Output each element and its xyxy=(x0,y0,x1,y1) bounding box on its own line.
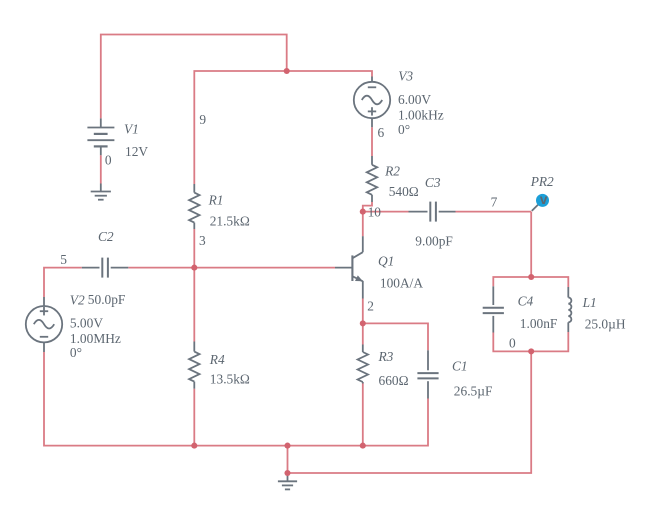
svg-text:6.00V: 6.00V xyxy=(398,92,431,107)
junction node 3 xyxy=(191,265,197,271)
probe PR2 xyxy=(536,192,549,207)
wire bottom rail mid xyxy=(194,445,362,447)
wire C2 left from V2 corner xyxy=(44,268,82,297)
junction tank top xyxy=(528,274,534,280)
svg-text:2: 2 xyxy=(367,299,374,314)
wire R2 bottom jog to node 10 xyxy=(363,202,372,236)
svg-text:C2: C2 xyxy=(98,229,114,244)
svg-text:C3: C3 xyxy=(425,175,441,190)
svg-text:R1: R1 xyxy=(208,192,224,207)
wire tank bottom side xyxy=(493,332,568,351)
wire tank top side xyxy=(493,277,568,287)
junction top rail xyxy=(284,68,290,74)
svg-text:6: 6 xyxy=(378,125,385,140)
svg-text:Q1: Q1 xyxy=(378,253,394,268)
resistor R3 xyxy=(358,345,368,384)
battery V1 xyxy=(87,118,114,155)
svg-text:0°: 0° xyxy=(70,345,82,360)
svg-text:v: v xyxy=(540,192,548,207)
wire V1 bottom to ground xyxy=(100,155,102,183)
ac source V3 xyxy=(354,77,390,128)
junction node 2 xyxy=(360,320,366,326)
svg-text:9: 9 xyxy=(199,112,206,127)
svg-text:13.5kΩ: 13.5kΩ xyxy=(210,372,250,387)
svg-text:660Ω: 660Ω xyxy=(379,373,409,388)
wire node 3 to Q1 base xyxy=(194,267,335,269)
inductor L1 xyxy=(568,287,571,332)
transistor Q1 xyxy=(335,236,363,298)
capacitor C3 xyxy=(409,202,456,222)
svg-text:0: 0 xyxy=(509,336,516,351)
wire PR2 corner down to tank top xyxy=(530,212,532,277)
svg-text:V3: V3 xyxy=(398,69,413,84)
svg-text:1.00kHz: 1.00kHz xyxy=(398,107,444,122)
wire R3 bottom to rail xyxy=(362,384,364,446)
junction tank bottom xyxy=(528,348,534,354)
probe PR2 stub xyxy=(532,205,538,211)
svg-text:25.0µH: 25.0µH xyxy=(585,316,626,331)
svg-text:R2: R2 xyxy=(384,163,400,178)
junction ground rail xyxy=(284,443,290,449)
junction node 10 xyxy=(360,209,366,215)
resistor R1 xyxy=(189,184,199,229)
svg-text:L1: L1 xyxy=(582,295,597,310)
junction R3 bottom xyxy=(360,443,366,449)
svg-text:C4: C4 xyxy=(518,294,534,309)
wire top rail from V1 to drop xyxy=(101,35,287,119)
svg-text:3: 3 xyxy=(199,233,206,248)
svg-text:7: 7 xyxy=(491,195,498,210)
svg-text:26.5µF: 26.5µF xyxy=(454,384,493,399)
svg-text:50.0pF: 50.0pF xyxy=(88,292,126,307)
junction ground tap xyxy=(284,470,290,476)
wire bottom rail to C1 bottom xyxy=(363,399,428,446)
svg-text:9.00pF: 9.00pF xyxy=(415,234,453,249)
svg-text:540Ω: 540Ω xyxy=(389,184,419,199)
capacitor C4 xyxy=(483,286,504,332)
wire Q1 emitter node 2 down to R3 xyxy=(362,299,364,345)
svg-text:21.5kΩ: 21.5kΩ xyxy=(210,213,250,228)
wire V2 bottom to bottom rail xyxy=(44,352,194,446)
wire node 2 to C1 top xyxy=(363,323,428,350)
wire ground drop xyxy=(287,446,289,473)
svg-text:R4: R4 xyxy=(209,352,225,367)
svg-text:0: 0 xyxy=(105,153,112,168)
wire R4 bottom to bottom rail xyxy=(193,389,195,446)
svg-text:1.00nF: 1.00nF xyxy=(520,316,558,331)
wire node 3 down to R4 xyxy=(193,268,195,342)
svg-text:100A/A: 100A/A xyxy=(380,275,423,290)
wire R1 bottom to node 3 junction xyxy=(193,229,195,268)
svg-text:5: 5 xyxy=(60,252,67,267)
svg-text:12V: 12V xyxy=(125,144,148,159)
svg-text:5.00V: 5.00V xyxy=(70,315,103,330)
svg-text:10: 10 xyxy=(368,205,382,220)
wire V3 bottom to R2 xyxy=(371,127,373,156)
svg-text:1.00MHz: 1.00MHz xyxy=(70,331,121,346)
resistor R4 xyxy=(189,342,199,389)
svg-text:0°: 0° xyxy=(398,122,410,137)
capacitor C2 xyxy=(82,258,129,278)
wire horizontal rail node 9 to V3 xyxy=(194,71,372,184)
resistor R2 xyxy=(367,156,377,202)
svg-text:PR2: PR2 xyxy=(530,174,554,189)
capacitor C1 xyxy=(417,350,438,398)
junction R4 bottom xyxy=(191,443,197,449)
wire ground tap to tank bottom xyxy=(288,351,532,473)
ac source V2 xyxy=(26,297,62,352)
svg-text:V2: V2 xyxy=(70,292,85,307)
svg-text:V1: V1 xyxy=(124,121,139,136)
ground under V1 xyxy=(91,184,111,200)
wire C2 right to node 3 xyxy=(128,267,194,269)
svg-text:C1: C1 xyxy=(452,359,468,374)
svg-text:R3: R3 xyxy=(378,349,394,364)
wire node 10 to C3 left xyxy=(363,211,409,213)
wire C3 right to PR2 corner xyxy=(456,211,532,213)
ground bottom center xyxy=(278,473,297,489)
